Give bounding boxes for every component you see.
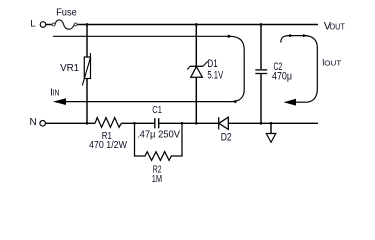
svg-text:N: N [30, 117, 37, 128]
svg-text:Fuse: Fuse [56, 7, 77, 18]
svg-text:D2: D2 [221, 132, 232, 144]
svg-text:C1: C1 [152, 105, 162, 116]
svg-text:VR1: VR1 [60, 63, 79, 74]
svg-text:5.1V: 5.1V [207, 69, 223, 81]
svg-text:IN: IN [53, 88, 60, 97]
svg-text:D1: D1 [207, 58, 217, 70]
svg-text:L: L [30, 19, 36, 30]
svg-text:470 1/2W: 470 1/2W [89, 140, 127, 151]
svg-text:1M: 1M [152, 174, 162, 185]
svg-text:OUT: OUT [330, 21, 346, 31]
svg-text:OUT: OUT [324, 59, 341, 68]
svg-text:470μ: 470μ [272, 71, 292, 83]
svg-text:.47μ 250V: .47μ 250V [137, 129, 180, 140]
